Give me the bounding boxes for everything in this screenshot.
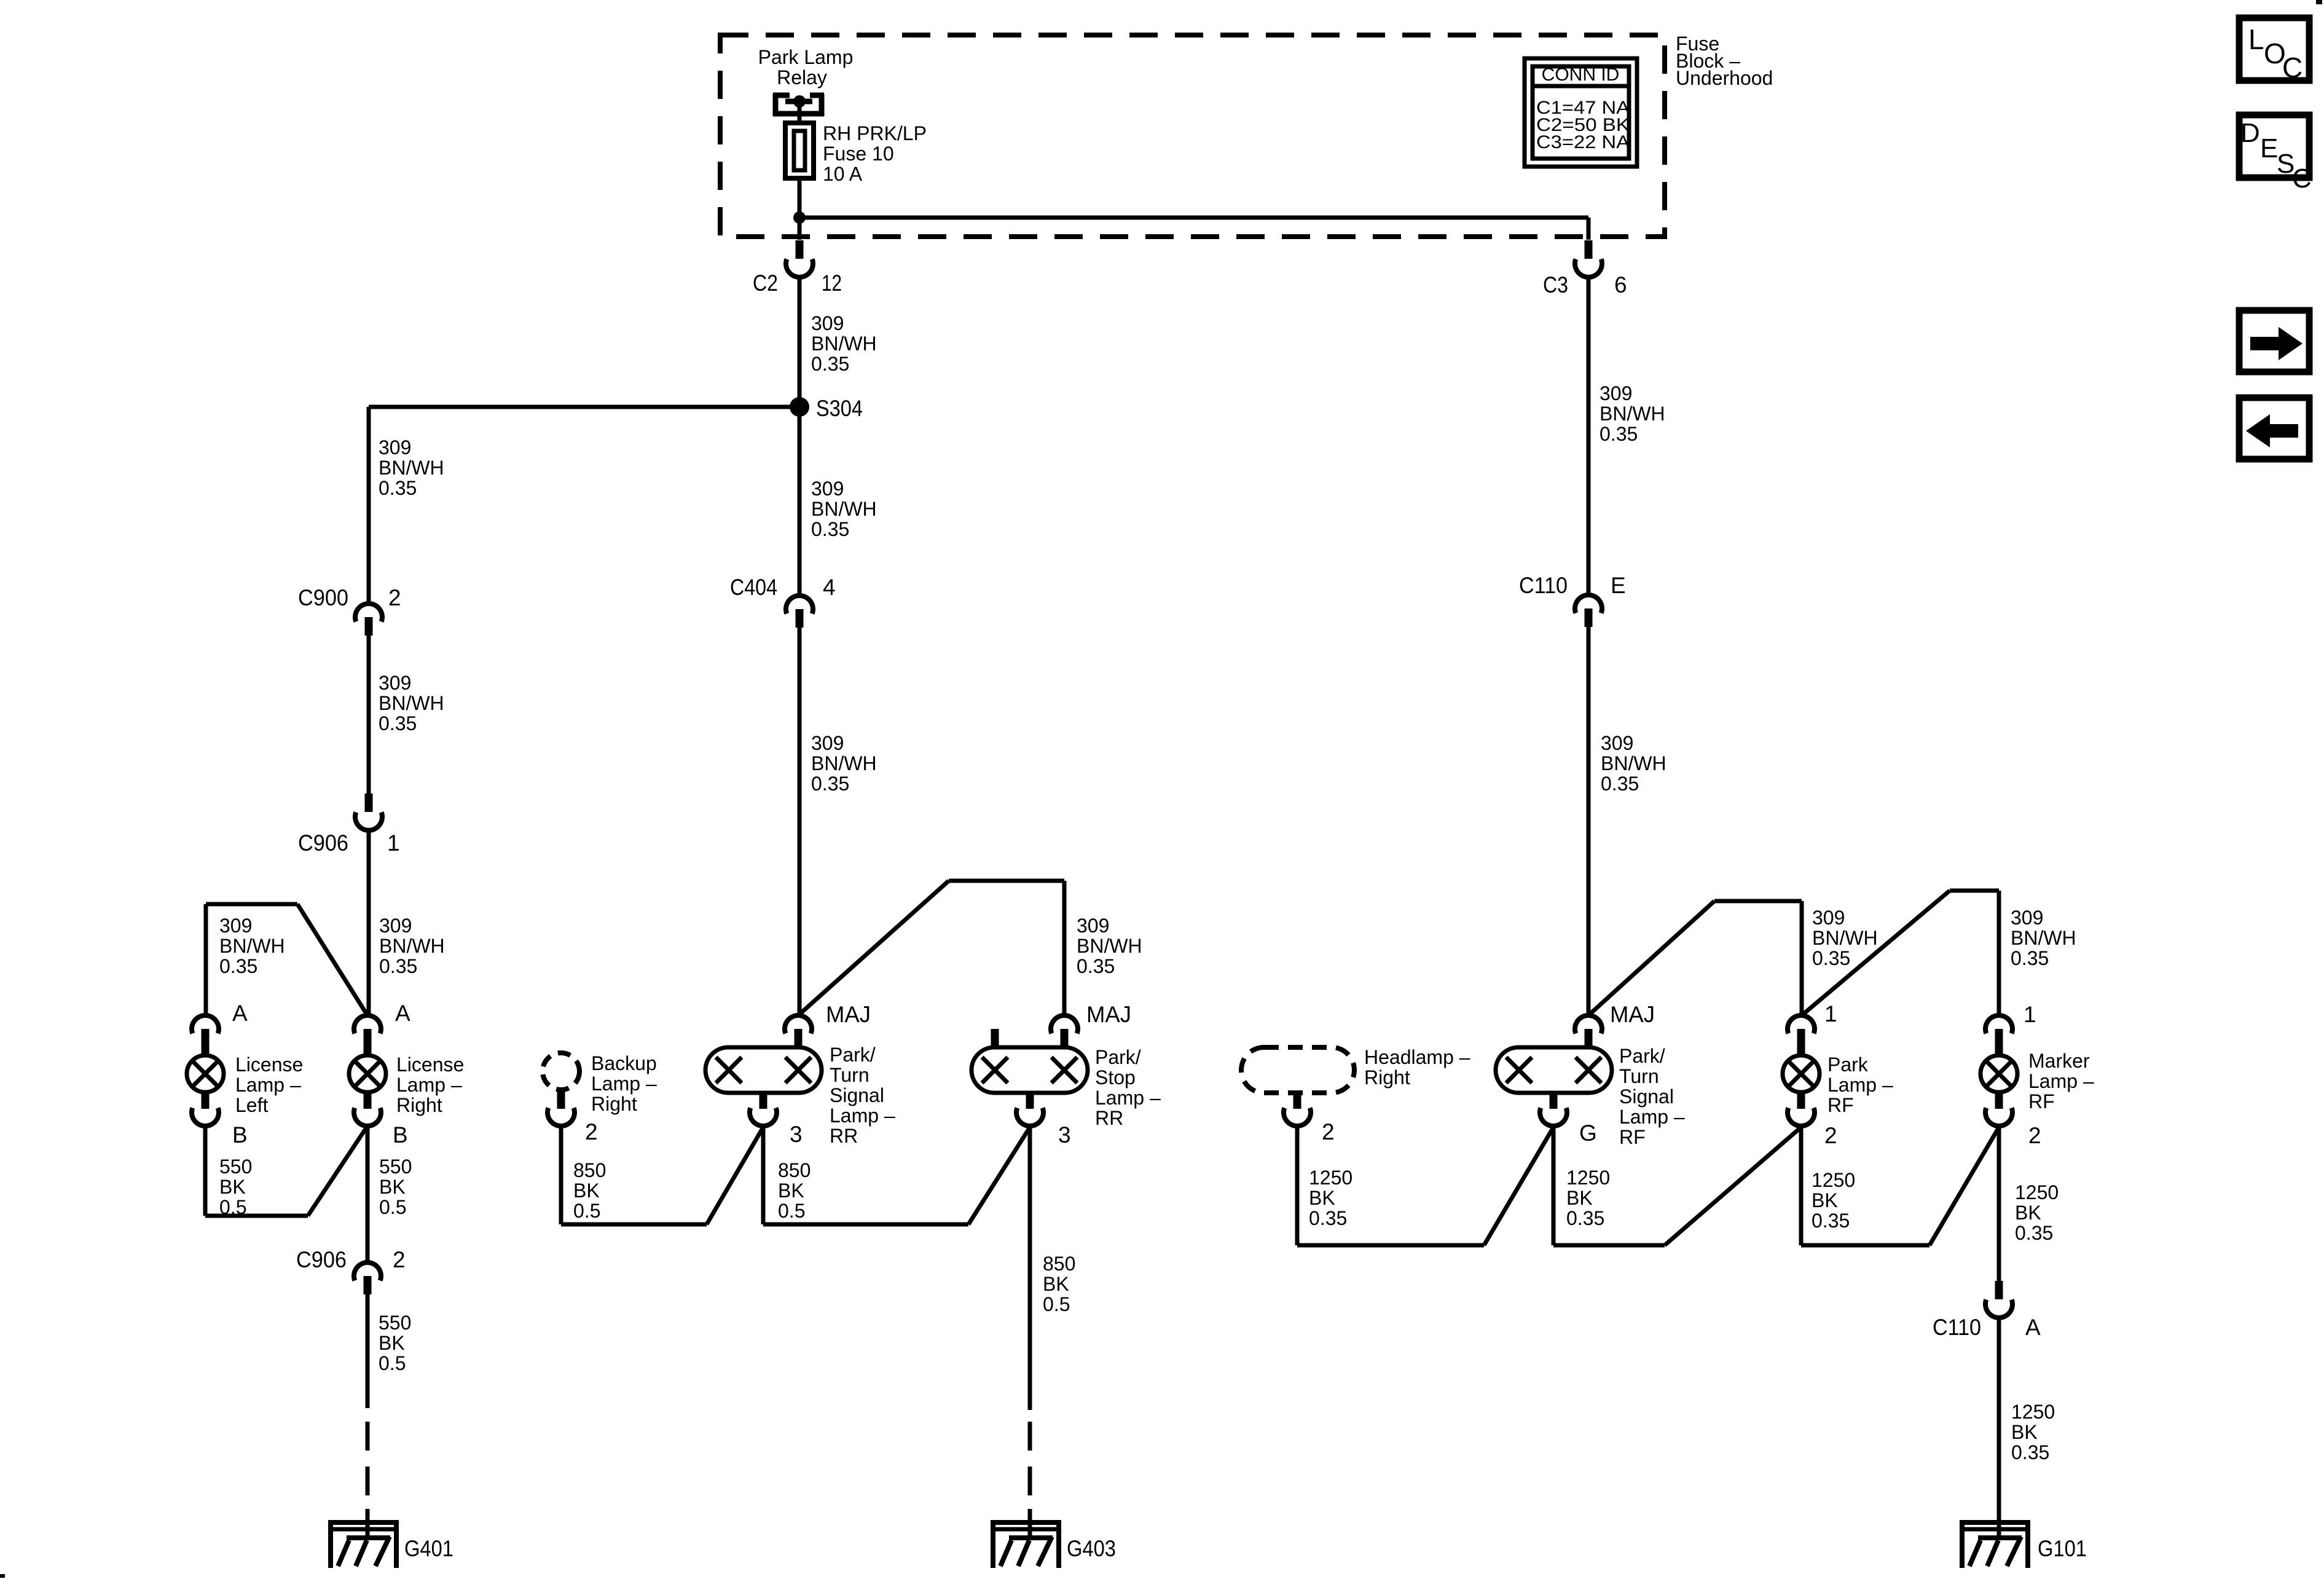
label pin A (left) [232, 1001, 248, 1026]
label pin 2 (Headlamp) [1322, 1119, 1335, 1144]
wire label 550 BK 0.5 (right) [379, 1156, 412, 1218]
wire Park/Turn RR pin3 down [761, 1125, 766, 1224]
wire label 309 BN/WH 0.35 (to Park Lamp RF) [1812, 907, 1878, 969]
wire License right B to C906-2 [366, 1125, 370, 1261]
terminal A of License Lamp Right [354, 1015, 381, 1057]
wire junction to C3 drop (horizontal in fuse block) [798, 216, 1588, 220]
svg-text:309: 309 [1600, 382, 1632, 404]
label pin 2 (Park Lamp RF) [1824, 1123, 1837, 1148]
svg-text:G101: G101 [2038, 1536, 2087, 1561]
svg-text:Park Lamp: Park Lamp [758, 46, 854, 68]
svg-text:0.5: 0.5 [379, 1196, 406, 1218]
label pin 1 (Park Lamp RF) [1824, 1001, 1837, 1026]
label MAJ (Park/Turn RR) [826, 1002, 871, 1027]
wire drop to Park Lamp RF pin 1 [1800, 901, 1804, 1015]
wire License left B down [203, 1124, 208, 1216]
svg-text:L: L [2248, 23, 2264, 55]
svg-text:Left: Left [235, 1094, 268, 1116]
wire diagonal up to Park Lamp RF pin 2 [1665, 1127, 1801, 1245]
connector C906 pin 1 [355, 793, 382, 830]
wire fuse to junction [798, 178, 802, 240]
svg-text:S304: S304 [816, 396, 863, 421]
svg-text:BN/WH: BN/WH [811, 333, 877, 355]
svg-text:Marker: Marker [2028, 1050, 2090, 1072]
terminal B of License Lamp Right [354, 1091, 381, 1126]
terminal A of License Lamp Left [192, 1015, 219, 1057]
wire C110 to Park/Turn RF MAJ [1587, 627, 1591, 1015]
svg-text:309: 309 [1601, 732, 1633, 754]
svg-text:0.35: 0.35 [1812, 1210, 1850, 1232]
svg-text:BK: BK [778, 1179, 804, 1202]
lamp Park/Turn Signal Lamp RR [705, 1047, 822, 1093]
svg-text:A: A [232, 1001, 248, 1026]
svg-text:Lamp –: Lamp – [235, 1074, 301, 1096]
svg-text:B: B [393, 1122, 408, 1148]
label Park Lamp - RF [1827, 1053, 1893, 1116]
svg-text:309: 309 [1077, 915, 1109, 937]
wire C2 to C404 (through S304) [798, 276, 802, 594]
wire C110 A to G101 [1997, 1317, 2001, 1521]
svg-text:309: 309 [811, 312, 844, 334]
terminal G of Park/Turn Signal Lamp RF [1540, 1091, 1567, 1126]
svg-text:BK: BK [379, 1332, 405, 1354]
svg-text:A: A [2025, 1315, 2041, 1340]
wire relay to fuse [798, 101, 802, 125]
svg-text:BN/WH: BN/WH [379, 457, 444, 479]
label pin 2 (C900) [388, 585, 401, 610]
lamp Backup Lamp Right (dashed, other circuit) [543, 1053, 579, 1090]
svg-text:1250: 1250 [2011, 1401, 2055, 1423]
svg-text:Lamp –: Lamp – [2028, 1070, 2094, 1092]
wire label 1250 BK 0.35 (Marker upper) [2015, 1181, 2059, 1244]
svg-text:Lamp –: Lamp – [591, 1073, 657, 1095]
svg-text:D: D [2240, 118, 2260, 148]
terminal MAJ of Park/Stop Lamp RR [1051, 1015, 1078, 1049]
svg-text:1: 1 [2024, 1002, 2036, 1027]
label pin 2 (C906 lower) [393, 1247, 406, 1272]
label License Lamp - Left [235, 1053, 303, 1116]
terminal 2 of Marker Lamp RF [1985, 1091, 2012, 1126]
lamp Marker Lamp RF [1981, 1055, 2017, 1092]
svg-text:0.35: 0.35 [1812, 947, 1850, 969]
svg-text:Stop: Stop [1095, 1066, 1136, 1089]
label Park/Turn Signal Lamp - RF [1619, 1045, 1685, 1148]
svg-text:MAJ: MAJ [1610, 1002, 1655, 1027]
svg-text:309: 309 [811, 732, 844, 754]
wire label 309 BN/WH 0.35 (License right) [379, 915, 445, 977]
wire Marker horizontal [1950, 889, 1999, 893]
svg-text:0.35: 0.35 [811, 773, 849, 795]
svg-text:Relay: Relay [777, 66, 827, 89]
svg-text:G: G [1579, 1120, 1597, 1146]
svg-text:Park/: Park/ [1095, 1046, 1141, 1068]
wire label 850 BK 0.5 (Park/Turn RR) [778, 1159, 811, 1222]
wire label 309 BN/WH 0.35 (C2 to S304) [811, 312, 877, 375]
svg-text:BK: BK [1812, 1189, 1838, 1211]
wire diagonal License left tap [297, 904, 367, 1015]
wire Backup bottom horizontal [561, 1223, 707, 1227]
svg-text:BN/WH: BN/WH [379, 692, 444, 714]
wire dashed to G401 [366, 1422, 370, 1521]
svg-text:1250: 1250 [1309, 1167, 1352, 1189]
wire label 550 BK 0.5 (to G401) [379, 1312, 411, 1374]
svg-text:Turn: Turn [1619, 1065, 1659, 1087]
svg-text:License: License [396, 1053, 464, 1076]
label MAJ (Park/Turn RF) [1610, 1002, 1655, 1027]
svg-text:Headlamp –: Headlamp – [1364, 1046, 1470, 1068]
label pin 6 [1614, 272, 1627, 297]
svg-text:0.35: 0.35 [1600, 423, 1638, 445]
svg-text:BN/WH: BN/WH [2011, 927, 2076, 949]
terminal 1 of Park Lamp RF [1788, 1015, 1815, 1057]
label Headlamp - Right [1364, 1046, 1470, 1089]
svg-text:C: C [2282, 52, 2302, 84]
svg-text:309: 309 [1812, 907, 1845, 929]
svg-text:A: A [395, 1001, 410, 1026]
svg-text:12: 12 [822, 270, 842, 296]
svg-text:G403: G403 [1067, 1536, 1116, 1561]
svg-text:BK: BK [573, 1179, 600, 1202]
svg-text:1250: 1250 [1566, 1167, 1610, 1189]
svg-text:2: 2 [2028, 1123, 2041, 1148]
svg-text:0.35: 0.35 [219, 955, 257, 977]
wire C906 to License Lamp Right A [367, 829, 371, 1015]
svg-text:2: 2 [393, 1247, 406, 1272]
label C3 [1543, 272, 1568, 297]
connector C2 pin 12 [786, 240, 813, 277]
svg-text:License: License [235, 1053, 303, 1076]
svg-text:0.35: 0.35 [1077, 955, 1115, 977]
svg-text:309: 309 [379, 436, 411, 459]
wire MAJ RR diagonal [798, 881, 949, 1015]
label pin B (right) [393, 1122, 408, 1148]
wire label 309 BN/WH 0.35 (C110 drop) [1601, 732, 1666, 795]
svg-text:0.35: 0.35 [2011, 947, 2049, 969]
svg-text:BN/WH: BN/WH [379, 935, 445, 957]
wire diagonal up to Park/Turn RR pin 3 [707, 1127, 763, 1224]
svg-text:4: 4 [823, 575, 836, 600]
terminal B of License Lamp Left [192, 1091, 219, 1126]
svg-text:1: 1 [1824, 1001, 1837, 1026]
terminal MAJ of Park/Turn Signal Lamp RR [785, 1015, 812, 1049]
svg-text:C: C [2292, 163, 2312, 194]
svg-text:C3=22 NA: C3=22 NA [1536, 132, 1630, 152]
wire S304 west drop to C900 [367, 407, 371, 602]
svg-text:309: 309 [811, 478, 844, 500]
connector C404 pin 4 [786, 596, 813, 628]
wire label 309 BN/WH 0.35 (License left) [219, 915, 285, 977]
wire Headlamp 2 down [1295, 1124, 1300, 1245]
svg-text:0.35: 0.35 [379, 955, 417, 977]
back arrow box [2239, 398, 2309, 459]
svg-text:850: 850 [778, 1159, 811, 1181]
wire pin G down [1552, 1125, 1556, 1245]
svg-text:309: 309 [219, 915, 252, 937]
svg-text:BN/WH: BN/WH [219, 935, 285, 957]
svg-text:C404: C404 [730, 575, 777, 600]
wire RF horizontal [1714, 899, 1802, 904]
CONN ID table [1525, 58, 1637, 167]
label Park/Stop Lamp - RR [1095, 1046, 1161, 1129]
svg-text:10 A: 10 A [823, 163, 863, 185]
wire License left horizontal [206, 902, 297, 907]
wire drop to C3 [1587, 218, 1591, 240]
label S304 [816, 396, 863, 421]
LOC navigation box [2239, 18, 2309, 84]
svg-text:Lamp –: Lamp – [1619, 1106, 1685, 1128]
lamp Park Lamp RF [1783, 1055, 1820, 1092]
label Park/Turn Signal Lamp - RR [830, 1044, 895, 1147]
svg-text:Right: Right [1364, 1066, 1410, 1089]
svg-text:0.5: 0.5 [379, 1352, 406, 1374]
svg-text:C906: C906 [298, 830, 348, 856]
svg-text:E: E [2260, 133, 2278, 163]
connector C900 pin 2 [355, 604, 382, 636]
label C906 [298, 830, 348, 856]
wire License bottom horizontal [205, 1214, 308, 1218]
svg-text:BK: BK [1043, 1273, 1069, 1295]
svg-text:CONN ID: CONN ID [1542, 65, 1620, 85]
svg-text:309: 309 [2011, 907, 2043, 929]
label pin 12 [822, 270, 842, 296]
wire label 1250 BK 0.35 (pin G) [1566, 1167, 1610, 1229]
fuse label RH PRK/LP Fuse 10 10 A [823, 122, 927, 185]
ground G403 [991, 1509, 1116, 1568]
fuse RH PRK/LP Fuse 10 (double rectangle) [785, 123, 814, 178]
svg-text:0.5: 0.5 [573, 1200, 600, 1222]
svg-text:0.35: 0.35 [1566, 1207, 1604, 1229]
connector C110 pin E [1575, 595, 1602, 627]
label pin G [1579, 1120, 1597, 1146]
svg-text:550: 550 [219, 1156, 252, 1178]
wire C906-2 down [366, 1294, 370, 1408]
terminal 2 of Park Lamp RF [1788, 1091, 1815, 1126]
lamp Headlamp Right (dashed, other circuit) [1241, 1047, 1354, 1093]
svg-text:0.35: 0.35 [811, 353, 849, 375]
svg-text:0.5: 0.5 [778, 1200, 805, 1222]
label pin 4 [823, 575, 836, 600]
terminal 2 of Backup Lamp Right [548, 1090, 575, 1126]
svg-text:309: 309 [379, 915, 412, 937]
svg-text:Park/: Park/ [830, 1044, 876, 1066]
svg-text:0.35: 0.35 [811, 518, 849, 540]
wire Marker pin2 down to C110 A [1997, 1125, 2001, 1288]
wire drop to Park/Stop Lamp RR MAJ [1062, 881, 1067, 1015]
svg-text:850: 850 [1043, 1253, 1075, 1275]
svg-text:850: 850 [573, 1159, 606, 1181]
svg-text:MAJ: MAJ [1086, 1002, 1131, 1027]
label C2 [753, 270, 778, 296]
wire label 309 BN/WH 0.35 (C3 to C110) [1600, 382, 1665, 445]
lamp Park/Turn Signal Lamp RF [1496, 1047, 1612, 1093]
wire diagonal up to Marker pin 2 [1929, 1127, 1999, 1245]
svg-text:Fuse 10: Fuse 10 [823, 143, 894, 165]
svg-text:G401: G401 [404, 1536, 453, 1561]
wire S304 branch west [369, 405, 799, 409]
wire label 1250 BK 0.35 (to G101) [2011, 1401, 2055, 1463]
park lamp relay contact symbol [773, 94, 824, 116]
svg-text:2: 2 [1824, 1123, 1837, 1148]
wire label 1250 BK 0.35 (Park Lamp RF) [1812, 1169, 1855, 1232]
terminal 1 of Marker Lamp RF [1985, 1015, 2012, 1057]
svg-text:2: 2 [1322, 1119, 1335, 1144]
wire middle bottom horizontal [763, 1223, 968, 1227]
svg-text:BN/WH: BN/WH [1600, 403, 1665, 425]
park lamp relay label [758, 46, 854, 89]
svg-text:B: B [232, 1122, 248, 1148]
label Backup Lamp - Right [591, 1052, 657, 1115]
wire G bottom horizontal [1553, 1243, 1665, 1248]
label Marker Lamp - RF [2028, 1050, 2094, 1112]
wire label 309 BN/WH 0.35 (between RR lamps) [1077, 915, 1142, 977]
svg-text:RR: RR [830, 1125, 858, 1147]
svg-text:BK: BK [219, 1176, 246, 1198]
svg-text:309: 309 [379, 672, 411, 694]
svg-text:C900: C900 [298, 585, 348, 610]
svg-text:0.35: 0.35 [379, 477, 417, 499]
wire label 550 BK 0.5 (left) [219, 1156, 252, 1218]
svg-text:Right: Right [591, 1093, 637, 1115]
svg-text:RH PRK/LP: RH PRK/LP [823, 122, 927, 144]
svg-text:Park/: Park/ [1619, 1045, 1665, 1067]
wire diagonal up to Park/Stop RR pin 3 [968, 1127, 1030, 1224]
lamp Park/Stop Lamp RR [972, 1047, 1088, 1093]
svg-text:BN/WH: BN/WH [1077, 935, 1142, 957]
svg-text:MAJ: MAJ [826, 1002, 871, 1027]
wire label 309 BN/WH 0.35 (C404 drop) [811, 732, 877, 795]
terminal MAJ of Park/Turn Signal Lamp RF [1575, 1015, 1602, 1049]
splice S304 dot [790, 397, 809, 417]
svg-text:0.35: 0.35 [2015, 1222, 2053, 1244]
label pin 1 (Marker) [2024, 1002, 2036, 1027]
svg-text:Lamp –: Lamp – [1827, 1074, 1893, 1096]
svg-text:550: 550 [379, 1312, 411, 1334]
wire Park Lamp bottom horizontal [1801, 1243, 1929, 1248]
unused pin stub of Park/Stop Lamp RR [991, 1029, 999, 1049]
svg-text:0.35: 0.35 [1309, 1207, 1347, 1229]
svg-text:0.35: 0.35 [379, 712, 417, 734]
forward arrow box [2239, 310, 2309, 372]
svg-text:Signal: Signal [830, 1084, 884, 1106]
page registration mark top right [2316, 0, 2322, 4]
label pin 2 (Backup) [585, 1119, 598, 1144]
connector C3 pin 6 [1575, 240, 1602, 277]
wire Park Lamp RF pin2 down [1799, 1125, 1804, 1245]
svg-text:BK: BK [2011, 1421, 2038, 1443]
lamp License Lamp Left [187, 1055, 224, 1092]
DESC navigation box [2239, 115, 2312, 194]
svg-text:Right: Right [396, 1094, 442, 1116]
label License Lamp - Right [396, 1053, 464, 1116]
svg-text:6: 6 [1614, 272, 1627, 297]
label pin A (C110) [2025, 1315, 2041, 1340]
wire Park/Stop RR pin3 to G403 [1028, 1125, 1032, 1410]
svg-text:BK: BK [1309, 1187, 1335, 1209]
svg-text:RF: RF [1619, 1126, 1646, 1148]
svg-text:2: 2 [585, 1119, 598, 1144]
label C110 (A) [1933, 1315, 1981, 1340]
svg-text:BK: BK [1566, 1187, 1593, 1209]
label pin 1 (C906) [387, 830, 400, 856]
lamp License Lamp Right [349, 1055, 386, 1092]
wire MAJ RR horizontal [949, 879, 1064, 883]
svg-text:C906: C906 [296, 1247, 347, 1272]
svg-text:1: 1 [387, 830, 400, 856]
wire drop to Marker Lamp RF pin 1 [1997, 891, 2001, 1015]
svg-text:3: 3 [790, 1122, 803, 1147]
wire label 850 BK 0.5 (to G403) [1043, 1253, 1075, 1315]
terminal 2 of Headlamp Right [1284, 1093, 1311, 1126]
svg-text:0.35: 0.35 [1601, 773, 1639, 795]
wire Park Lamp RF diagonal to Marker [1802, 891, 1950, 1015]
svg-text:Lamp –: Lamp – [396, 1074, 462, 1096]
wire label 309 BN/WH 0.35 (S304 to C404) [811, 478, 877, 540]
wire License left drop [204, 904, 208, 1015]
svg-text:RF: RF [2028, 1090, 2055, 1112]
svg-text:RF: RF [1827, 1094, 1854, 1116]
svg-text:BK: BK [379, 1176, 406, 1198]
fuse block - underhood dashed outline [720, 35, 1665, 237]
svg-text:0.5: 0.5 [1043, 1293, 1070, 1315]
wire Headlamp bottom horizontal [1297, 1243, 1484, 1248]
ground G101 [1960, 1509, 2087, 1568]
svg-text:Backup: Backup [591, 1052, 657, 1074]
terminal 3 of Park/Stop Lamp RR [1016, 1091, 1043, 1126]
wire dashed to G403 [1028, 1422, 1032, 1521]
label pin 2 (Marker) [2028, 1123, 2041, 1148]
page registration mark bottom left [0, 1574, 5, 1578]
svg-text:BN/WH: BN/WH [811, 752, 877, 774]
label C906 (lower) [296, 1247, 347, 1272]
svg-text:C110: C110 [1519, 573, 1568, 598]
wire label 309 BN/WH 0.35 (to C900) [379, 436, 444, 499]
wire diagonal up to License right B [308, 1126, 367, 1216]
svg-text:Turn: Turn [830, 1064, 870, 1086]
svg-text:1250: 1250 [1812, 1169, 1855, 1191]
label C110 (E) [1519, 573, 1568, 598]
wire C3 to C110 [1587, 276, 1591, 594]
label C404 [730, 575, 777, 600]
wire label 850 BK 0.5 (Backup) [573, 1159, 606, 1222]
svg-text:2: 2 [388, 585, 401, 610]
connector C110 pin A [1985, 1281, 2012, 1318]
label C900 [298, 585, 348, 610]
wire Backup 2 down [559, 1124, 563, 1224]
svg-text:550: 550 [379, 1156, 412, 1178]
label pin 3 (Park/Turn RR) [790, 1122, 803, 1147]
svg-text:Signal: Signal [1619, 1085, 1674, 1108]
svg-text:Lamp –: Lamp – [830, 1105, 895, 1127]
label pin 3 (Park/Stop RR) [1058, 1122, 1071, 1148]
connector C906 pin 2 [354, 1262, 381, 1294]
svg-text:Park: Park [1827, 1053, 1869, 1076]
label pin B (left) [232, 1122, 248, 1148]
ground G401 [329, 1509, 453, 1568]
svg-text:BN/WH: BN/WH [1812, 927, 1878, 949]
wire diagonal up to pin G [1484, 1127, 1553, 1245]
label MAJ (Park/Stop RR) [1086, 1002, 1131, 1027]
fuse block label Fuse Block - Underhood [1676, 33, 1773, 89]
svg-text:C3: C3 [1543, 272, 1568, 297]
svg-text:RR: RR [1095, 1107, 1123, 1129]
label pin E [1611, 573, 1626, 598]
svg-text:BK: BK [2015, 1202, 2041, 1224]
svg-text:0.35: 0.35 [2011, 1441, 2049, 1463]
label pin A (right) [395, 1001, 410, 1026]
svg-text:Lamp –: Lamp – [1095, 1087, 1161, 1109]
junction dot in fuse block [793, 211, 806, 224]
wire label 309 BN/WH 0.35 (C900 to C906) [379, 672, 444, 734]
